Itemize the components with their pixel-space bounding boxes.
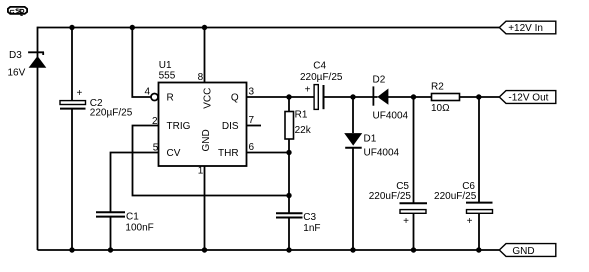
wire pin7 DIS stub xyxy=(247,125,262,127)
svg-text:+: + xyxy=(305,85,311,96)
node -12V Out port tag xyxy=(499,91,556,104)
svg-text:2: 2 xyxy=(152,116,158,127)
junction ground rail at C1 xyxy=(108,247,113,252)
svg-text:R2: R2 xyxy=(431,82,444,93)
svg-text:+12V In: +12V In xyxy=(508,23,543,34)
pin 4 inversion bubble xyxy=(151,94,158,101)
junction ground rail at C2 xyxy=(69,247,74,252)
svg-text:U1: U1 xyxy=(159,60,172,71)
junction output node at D1 xyxy=(350,94,355,99)
junction on top rail at C2 xyxy=(69,25,74,30)
wire ground bottom rail xyxy=(38,249,500,251)
svg-text:CV: CV xyxy=(167,148,181,159)
wire pin3 Q output xyxy=(247,96,315,98)
wire reset pin4 to +12V rail xyxy=(132,27,150,97)
svg-text:1: 1 xyxy=(198,165,204,176)
svg-text:TRIG: TRIG xyxy=(167,121,191,132)
node GND port tag xyxy=(499,244,556,257)
junction node at C5 xyxy=(411,94,416,99)
capacitor C4 220uF/25 xyxy=(300,61,378,110)
svg-text:D1: D1 xyxy=(364,133,377,144)
capacitor C2 220uF/25 xyxy=(60,27,133,250)
junction TRIG-THR tie node xyxy=(286,193,291,198)
svg-text:THR: THR xyxy=(218,148,239,159)
diode D1 UF4004 xyxy=(344,97,399,250)
svg-text:R: R xyxy=(167,92,174,103)
wire left supply rail xyxy=(37,27,39,250)
capacitor C6 220uF/25 xyxy=(434,97,492,250)
resistor R1 22k xyxy=(285,97,312,213)
capacitor C3 1nF xyxy=(276,212,321,250)
junction pin6 THR node xyxy=(286,150,291,155)
junction -12V node at C6 xyxy=(476,94,481,99)
svg-text:+: + xyxy=(76,88,82,99)
node +12V In port tag xyxy=(499,21,556,34)
svg-text:3: 3 xyxy=(249,87,255,98)
svg-text:5: 5 xyxy=(153,142,159,153)
junction on top rail at reset branch xyxy=(130,25,135,30)
svg-text:220uF/25: 220uF/25 xyxy=(369,191,412,202)
wire pin2 TRIG to pin6 node under IC xyxy=(133,126,290,196)
svg-text:1nF: 1nF xyxy=(303,223,320,234)
svg-text:220µF/25: 220µF/25 xyxy=(90,108,133,119)
wire pin5 CV down to C1 xyxy=(111,153,159,213)
ESP logo xyxy=(8,7,27,16)
svg-text:D2: D2 xyxy=(373,74,386,85)
svg-text:GND: GND xyxy=(201,129,212,151)
svg-text:C1: C1 xyxy=(126,211,139,222)
junction ground rail at C5 xyxy=(411,247,416,252)
svg-text:555: 555 xyxy=(159,71,176,82)
svg-text:+: + xyxy=(403,216,409,227)
svg-text:GND: GND xyxy=(512,246,534,257)
junction on top rail at VCC branch xyxy=(202,25,207,30)
wire pin6 THR xyxy=(247,152,290,154)
capacitor C5 220uF/25 xyxy=(369,97,427,250)
svg-text:7: 7 xyxy=(249,115,255,126)
junction ground rail at C3 xyxy=(286,247,291,252)
svg-text:8: 8 xyxy=(198,72,204,83)
resistor R2 10R xyxy=(431,82,499,115)
svg-text:UF4004: UF4004 xyxy=(364,148,400,159)
diode D2 UF4004 xyxy=(373,74,432,121)
svg-text:220uF/25: 220uF/25 xyxy=(434,191,477,202)
wire pin1 GND to ground rail xyxy=(204,166,206,250)
capacitor C1 100nF xyxy=(96,211,154,250)
svg-text:220µF/25: 220µF/25 xyxy=(300,72,343,83)
svg-text:UF4004: UF4004 xyxy=(373,111,409,122)
junction ground rail at C6 xyxy=(476,247,481,252)
junction ground rail at D1 xyxy=(350,247,355,252)
junction output node at R1 xyxy=(286,94,291,99)
junction ground rail at pin1 xyxy=(202,247,207,252)
IC U1 555 timer body xyxy=(159,60,247,166)
svg-text:C3: C3 xyxy=(303,212,316,223)
svg-text:D3: D3 xyxy=(9,50,22,61)
svg-text:Q: Q xyxy=(231,92,239,103)
svg-text:16V: 16V xyxy=(8,68,26,79)
svg-text:4: 4 xyxy=(144,87,150,98)
svg-text:100nF: 100nF xyxy=(125,223,153,234)
svg-text:-12V Out: -12V Out xyxy=(508,93,548,104)
svg-text:+: + xyxy=(467,216,473,227)
svg-text:22k: 22k xyxy=(295,125,312,136)
wire pin8 VCC to +12V rail xyxy=(204,27,206,83)
svg-text:6: 6 xyxy=(249,142,255,153)
svg-text:DIS: DIS xyxy=(222,121,239,132)
svg-text:VCC: VCC xyxy=(202,88,213,109)
svg-text:R1: R1 xyxy=(295,110,308,121)
svg-text:10Ω: 10Ω xyxy=(431,103,450,114)
svg-text:C4: C4 xyxy=(313,61,326,72)
wire +12V top rail xyxy=(38,27,500,29)
diode D3 zener 16V xyxy=(8,50,47,79)
